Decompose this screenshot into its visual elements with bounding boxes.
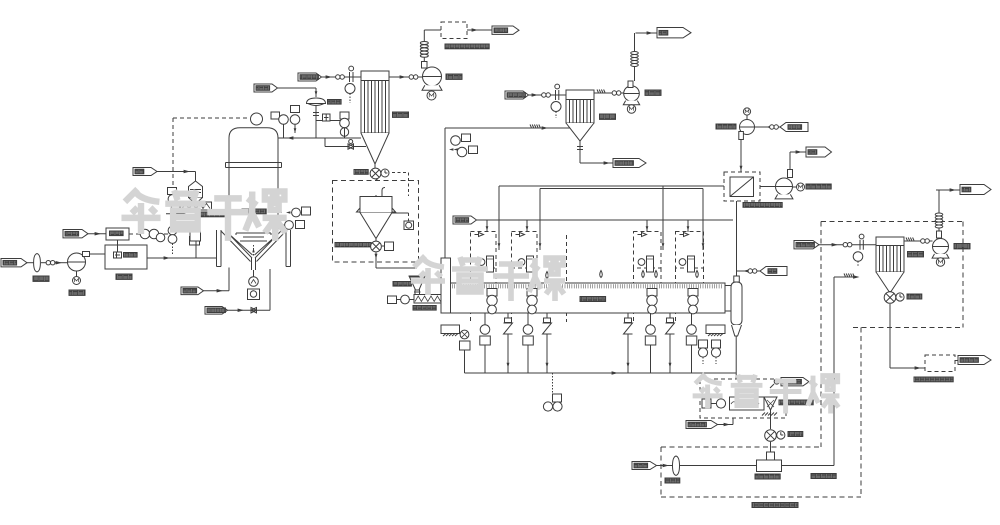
flow label 自然风 comb air in <box>780 123 808 132</box>
label 除尘器 DC1 <box>393 112 409 117</box>
label 助燃风机 <box>716 124 736 129</box>
discharge end seal box <box>706 325 725 336</box>
flash drying tower 闪蒸干燥塔 shell <box>229 128 278 231</box>
burner inside furnace <box>114 252 138 258</box>
packing system 包装系统 dashed box <box>925 355 955 372</box>
DC2 bag chamber <box>566 100 594 124</box>
discharge header under calciner <box>465 371 737 375</box>
flow label 压缩空气 compressed air to tower <box>205 307 228 315</box>
cool air valve <box>770 379 779 388</box>
burner station 1 <box>471 232 497 323</box>
riding ring station 2 <box>527 289 537 314</box>
flex duct above fan 1 <box>420 30 428 62</box>
screw cooler 冷却螺旋 <box>702 397 777 416</box>
label 文氏加料器 <box>755 474 780 479</box>
vent wire fan3 <box>936 188 960 192</box>
wire bleed air to filter <box>278 88 318 97</box>
flow label 原料 raw material <box>133 168 157 176</box>
dashed signal line from regulator <box>129 233 173 235</box>
instrument stack PI on feed drop <box>190 226 200 245</box>
label 气流输送管 <box>811 474 836 479</box>
flow label 压缩空气 pulse air DC3 <box>794 241 819 249</box>
riser into tower cone <box>269 269 271 310</box>
combustion air fan 助燃风机 <box>739 108 755 140</box>
cooler discharge rotary valve 旋转阀 <box>765 410 785 441</box>
label 引风机 fan3 <box>954 244 970 249</box>
PI gauge DC2 <box>551 102 561 119</box>
label 旋转阀 DC1 <box>354 170 368 175</box>
tower cone center discharge pipe <box>252 245 256 270</box>
plate heat exchanger dashed box <box>724 172 760 201</box>
instrument stack on duct <box>340 112 350 138</box>
tail fan vent wire <box>790 150 806 169</box>
support Z column 3 <box>624 313 633 373</box>
label 引风机 fan2 <box>645 90 661 95</box>
hot air furnace 热风炉 <box>105 245 147 269</box>
flow label 至加料口 to feed port <box>613 159 646 168</box>
label 尾气引风机 <box>806 184 831 189</box>
calciner outlet hood capsule <box>731 276 742 325</box>
flow label 排渣口 slag port <box>181 287 204 295</box>
pulse air line DC3 <box>819 234 876 250</box>
flow label 压缩空气 pulse air DC2 <box>505 91 529 99</box>
label 板式换热器（可选） <box>743 203 782 208</box>
pressure regulator 稳压器 <box>106 228 129 240</box>
motor M1 of blower <box>73 271 81 285</box>
air cooling system dashed boundary <box>661 222 963 498</box>
gas drop 1 <box>486 220 489 232</box>
dashed signal riser <box>172 118 174 234</box>
rotary calciner 回转煅烧炉 body <box>444 283 725 313</box>
bleed-in valve wire <box>737 269 761 273</box>
label 冷却螺旋（可选） <box>779 400 813 405</box>
DC3 bag chamber <box>876 246 904 273</box>
header instruments <box>543 373 562 411</box>
induced draft fan 引风机 no.1 <box>422 62 442 91</box>
motor of screw feeder 1 <box>166 202 186 215</box>
pneumatic conveying pipe 气流输送管 <box>782 274 860 466</box>
motor of fan 2 <box>627 105 635 113</box>
air drop 3 <box>662 186 664 250</box>
flex duct above fan 3 <box>935 190 943 231</box>
comb air fan discharge <box>740 139 743 172</box>
plate heat exchanger 板式换热器 <box>730 177 754 197</box>
calciner discharge end flange <box>725 286 734 312</box>
tower flanged band <box>226 163 282 168</box>
support Z column 2 <box>543 313 552 373</box>
flow label 下道工序 next step <box>958 356 991 365</box>
motor of screw feeder 2 <box>388 295 415 304</box>
filter stem to duct <box>313 106 319 139</box>
PI gauge DC3 <box>853 252 863 267</box>
DC3 cone <box>876 272 904 293</box>
flow label 冷风出口 cool air out <box>781 378 809 386</box>
wire compressed air with valve <box>228 308 271 313</box>
HX left duct to air manifold <box>690 185 724 187</box>
feed end discharge valve <box>460 330 471 373</box>
riser from calciner feed end <box>444 128 446 258</box>
flow label 自然风 conveying air <box>632 462 657 470</box>
waste heat recovery unit 余热回用装置 dashed <box>441 22 467 39</box>
wire to heat recovery box <box>424 29 441 31</box>
label 鼓风机 blower <box>69 290 85 295</box>
tail gas fan 尾气引风机 <box>775 170 804 199</box>
label 闪蒸干燥塔 inside tower <box>242 209 266 214</box>
DC2 discharge to feed port <box>577 141 613 165</box>
wire gas to regulator <box>88 232 106 236</box>
outlet hood bottom cone <box>732 325 742 397</box>
combustion air manifold lower <box>540 189 703 251</box>
label 螺旋加料器 no.2 <box>413 306 436 311</box>
filter F1 air filter <box>34 254 46 272</box>
weigh hopper 称重料仓 body <box>360 188 392 239</box>
duct tower dome to bag filter <box>279 136 362 140</box>
hopper discharge rotary valve <box>371 239 394 252</box>
DC1 rotary valve 旋转阀 <box>370 164 389 179</box>
drive unit under station 2 <box>523 313 534 373</box>
tower bottom double cone <box>221 231 286 262</box>
flow label 自然风 fresh-air inlet <box>1 259 27 267</box>
calciner exhaust riser <box>736 201 738 282</box>
tower right instruments lower <box>278 221 305 230</box>
label 过滤器 <box>328 100 342 105</box>
tower support left column <box>217 230 222 267</box>
tower discharge feeder motor <box>249 270 259 286</box>
label 称重料仓（可选） <box>335 243 371 247</box>
wire raw material feed <box>157 170 196 181</box>
wire to blower <box>55 261 68 265</box>
flow label 排空 vent 3 <box>960 185 991 195</box>
instrument stack TI on pipe <box>168 226 177 254</box>
feed hopper <box>189 181 203 202</box>
wire DC1 outlet to fan <box>389 75 423 79</box>
natural gas manifold <box>477 219 734 221</box>
coolant wire <box>718 418 734 426</box>
label 旋转阀 DC3 <box>907 294 922 299</box>
load cells on hopper <box>357 208 396 212</box>
label 引风机 fan1 <box>446 74 462 79</box>
transition hopper 过渡料仓 <box>409 276 426 295</box>
air drop 4 <box>702 189 704 251</box>
watermark 华普干燥 brand text (3 instances) <box>121 189 839 413</box>
flow label 自然风 bleed air <box>254 84 278 92</box>
calciner feed end hood <box>441 128 451 313</box>
main hot air pipe furnace to tower <box>147 256 217 260</box>
DC2 inlet duct <box>445 125 570 130</box>
gas drop 3 <box>646 220 649 232</box>
drive unit under station 4 <box>686 313 697 373</box>
bag dust collector 除尘器 DC1 clean plenum <box>361 71 389 81</box>
screw feeder 螺旋加料器 no.1 <box>181 202 212 210</box>
wire to next process <box>955 360 958 362</box>
branch with valve box <box>316 114 340 121</box>
pulse air line DC1 <box>322 66 362 82</box>
conveying air filter <box>657 456 757 475</box>
wire fresh air to filter <box>27 262 34 264</box>
label 螺旋加料器 <box>200 212 224 217</box>
valve V1 twin-disc <box>46 261 55 265</box>
DC2 cone <box>566 123 594 141</box>
vent wire fan2 <box>636 31 658 35</box>
DC3 product line to packing <box>890 304 925 370</box>
hopper valve outlet arrow <box>375 253 417 269</box>
flow label 压缩空气 pulse air DC1 <box>298 73 322 81</box>
tower support right column <box>286 230 291 267</box>
pulse air line DC2 <box>529 84 567 100</box>
label 旋转阀 cooler <box>788 432 803 437</box>
feed drop line to pipe <box>195 210 197 258</box>
label 回转煅烧炉 <box>580 297 606 302</box>
label 包装系统（可选） <box>914 377 953 382</box>
rotary airlock on feed drop <box>190 222 201 241</box>
DC1 bag chamber <box>361 81 389 134</box>
motor of fan 3 <box>936 258 944 266</box>
gas drop 4 <box>687 220 690 232</box>
instruments on riser <box>449 134 478 157</box>
support Z column 1 <box>504 313 513 373</box>
flame droplets on calciner top <box>546 271 699 279</box>
riding ring station 1 <box>487 289 497 314</box>
flow label 排空 vent 2 <box>806 147 832 157</box>
PI gauge on pulse line <box>345 84 355 104</box>
label 过渡料仓 <box>393 282 411 287</box>
HX right duct to tail fan <box>760 186 776 188</box>
flex duct above fan 2 <box>631 33 639 81</box>
burner station 4 <box>676 232 704 323</box>
induced draft fan 引风机 no.3 <box>932 231 949 258</box>
dashed link valve to hopper system <box>392 173 409 197</box>
discharge end instruments <box>698 340 720 364</box>
gas drop 2 <box>526 220 529 232</box>
flow label 引风 air bleed-in <box>760 267 787 276</box>
cooler dashed enclosure <box>700 379 786 418</box>
flex connector below DC1 valve <box>373 179 378 195</box>
wire regulator to burner <box>117 240 119 252</box>
drive unit under station 1 <box>480 313 491 373</box>
burner station 3 <box>634 232 662 323</box>
feed end discharge box <box>441 325 460 336</box>
label 除尘器 DC3 <box>908 252 924 257</box>
wire DC3 outlet to fan 3 <box>904 238 933 244</box>
riding ring station 4 <box>688 289 698 314</box>
support Z column 4 <box>666 313 675 373</box>
tower internal air disperser <box>236 233 271 241</box>
burner station 2 <box>512 232 538 323</box>
flow label 天然气 natural gas <box>63 230 88 238</box>
weigh hopper dashed enclosure <box>333 181 419 263</box>
DC3 rotary valve 旋转阀 <box>884 291 904 303</box>
riding ring station 3 <box>647 289 657 314</box>
flow label 排空 vent to atmosphere <box>657 28 691 38</box>
motor of fan 1 <box>427 91 436 100</box>
wire heat recovery outlet <box>467 28 492 32</box>
bleed branch to bag filter cone <box>325 138 366 149</box>
screw feeder 螺旋加料器 no.2 <box>414 295 441 304</box>
induced draft fan 引风机 no.2 <box>623 81 639 105</box>
dashed signal line to tower top instruments <box>173 117 250 119</box>
label 过滤器 filter <box>33 276 49 281</box>
flow label 冷媒进口 coolant in <box>686 421 718 429</box>
tower right instruments upper <box>278 207 311 217</box>
gauge cluster at furnace outlet <box>140 229 165 242</box>
tower top instrument cluster <box>251 106 300 139</box>
drive unit under station 3 <box>645 313 656 373</box>
breather filter 过滤器 on tower duct <box>307 98 326 106</box>
instrument on dashed line <box>168 188 177 204</box>
calciner rack teeth <box>450 284 721 288</box>
wire slag port <box>204 268 230 293</box>
zone boundary dashed <box>566 235 568 322</box>
bag dust collector 除尘器 DC3 clean plenum <box>876 237 904 246</box>
DC1 cone <box>361 133 389 164</box>
wire DC2 outlet to fan 2 <box>594 90 624 96</box>
venturi feeder 文氏加料器 <box>757 442 782 472</box>
comb air fan suction <box>755 125 781 129</box>
label 热风炉 furnace <box>116 274 132 279</box>
actuator on hopper side <box>392 213 414 230</box>
bag dust collector 除尘器 DC2 clean plenum <box>566 90 594 100</box>
blower B1 鼓风机 <box>68 252 106 272</box>
label 余热回用装置（可选） <box>445 44 489 49</box>
flow label 至车间 to workshop <box>492 26 519 34</box>
air drop arrows <box>498 243 705 248</box>
label 过滤器 conveying <box>665 478 680 483</box>
combustion air manifold upper <box>499 186 724 250</box>
flow label 天然气 gas to burners <box>453 216 477 224</box>
tower discharge vibrator box <box>248 289 260 300</box>
label 气流冷却装置（可选） <box>752 503 798 508</box>
label 除尘器 DC2 <box>600 114 616 119</box>
